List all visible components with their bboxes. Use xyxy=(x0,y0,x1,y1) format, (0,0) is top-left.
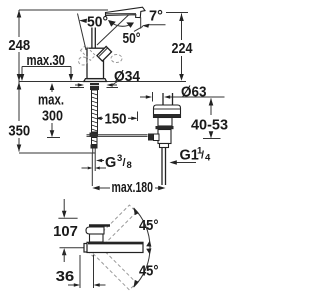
svg-text:3: 3 xyxy=(117,153,122,164)
svg-text:4: 4 xyxy=(205,153,211,164)
svg-text:107: 107 xyxy=(53,224,78,240)
svg-text:150: 150 xyxy=(105,112,127,128)
svg-text:max.180: max.180 xyxy=(112,180,154,196)
svg-text:45°: 45° xyxy=(139,264,159,280)
svg-text:350: 350 xyxy=(8,124,30,140)
svg-text:50°: 50° xyxy=(87,15,108,31)
svg-text:36: 36 xyxy=(56,269,75,285)
svg-text:G: G xyxy=(105,155,116,171)
svg-text:40-53: 40-53 xyxy=(191,118,228,134)
svg-text:Ø34: Ø34 xyxy=(114,69,140,85)
svg-text:max.: max. xyxy=(38,93,64,109)
svg-text:248: 248 xyxy=(8,38,30,54)
svg-text:/: / xyxy=(201,150,204,162)
svg-text:45°: 45° xyxy=(139,218,159,234)
svg-text:224: 224 xyxy=(172,41,193,57)
svg-text:8: 8 xyxy=(127,160,132,171)
svg-text:/: / xyxy=(123,157,126,169)
svg-text:Ø63: Ø63 xyxy=(181,85,207,101)
svg-text:300: 300 xyxy=(42,109,63,125)
svg-text:7°: 7° xyxy=(149,9,163,25)
svg-text:50°: 50° xyxy=(123,31,141,47)
svg-text:G1: G1 xyxy=(180,148,199,164)
